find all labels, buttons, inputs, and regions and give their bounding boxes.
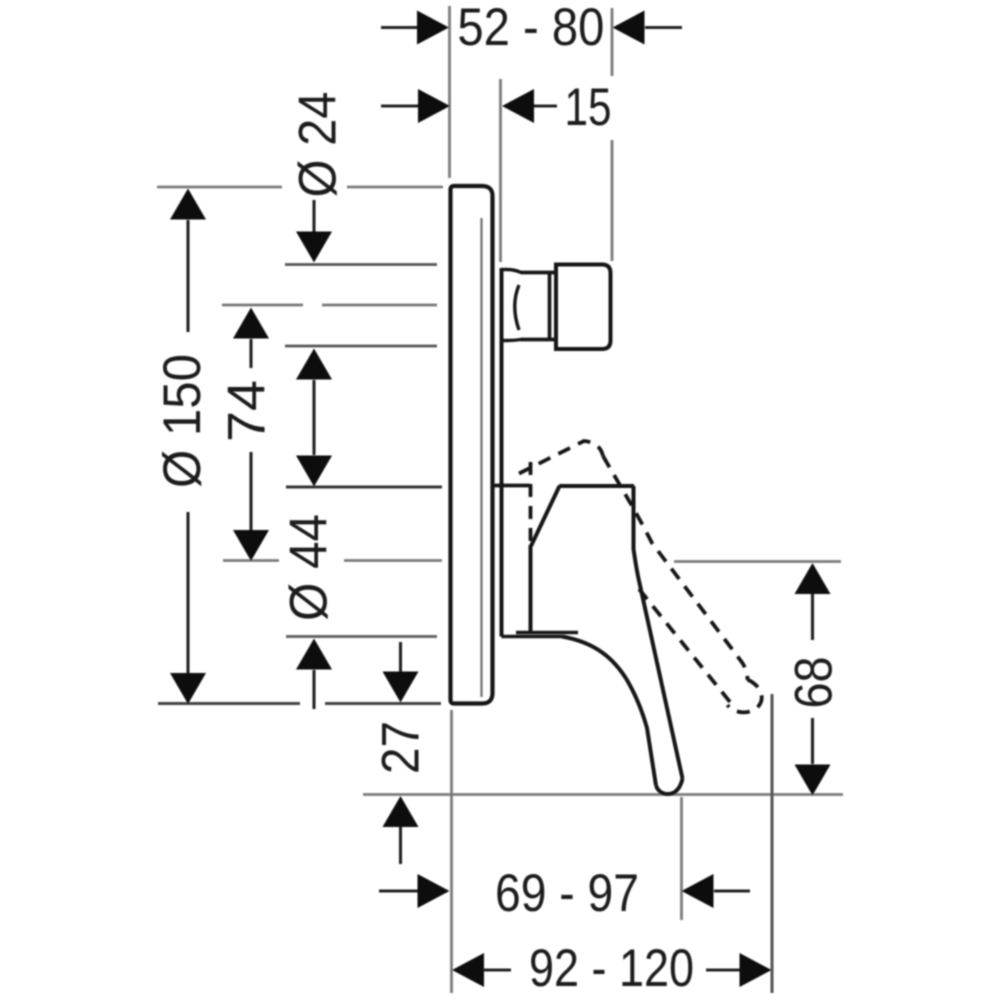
svg-text:Ø 150: Ø 150 <box>153 354 212 488</box>
dimension 68 (x=812.5) <box>795 563 831 594</box>
dashed handle hub left edge <box>529 462 533 545</box>
dimension O44 bottom arrow <box>296 639 332 670</box>
extension line 52-80 right (x=612) <box>611 8 614 261</box>
dimension 52-80 <box>381 26 682 29</box>
svg-text:69 - 97: 69 - 97 <box>495 864 639 923</box>
dimension O44 top arrow (tip at hub top) <box>296 456 332 487</box>
dimension 27 (x=400.5) <box>399 642 402 672</box>
extension line solid tip right (x=681.5) <box>680 797 683 920</box>
dashed lever upper edge <box>603 456 748 680</box>
svg-text:Ø 44: Ø 44 <box>280 514 339 621</box>
dimension 92-120 (y=970) <box>452 953 484 987</box>
lever tip cap <box>656 779 683 795</box>
handle hub left edge <box>529 545 533 633</box>
svg-text:52 - 80: 52 - 80 <box>457 0 604 57</box>
extension line hub center left (y=560.5) <box>223 559 442 562</box>
plate inner edge line <box>480 218 482 697</box>
wall plate (escutcheon side view) <box>451 186 493 704</box>
spout cylinder <box>521 273 557 340</box>
svg-text:92 - 120: 92 - 120 <box>529 939 694 998</box>
extension line hub top (y=487) <box>286 486 442 489</box>
spout end cap <box>556 265 611 350</box>
dimension 74 (x=251) <box>233 308 269 339</box>
extension line dashed tip right (x=772) <box>771 694 774 993</box>
extension line spout bottom (y=346) <box>285 345 437 348</box>
lever right edge <box>634 486 683 779</box>
lever underside <box>562 637 656 786</box>
extension line 52-80 left (x=449.5) <box>448 6 451 178</box>
extension line lever tip bottom (y=794.5) <box>363 793 843 796</box>
handle hub bottom lines <box>502 633 579 637</box>
spout neck <box>502 270 522 341</box>
svg-text:27: 27 <box>372 721 431 774</box>
handle hub top edge <box>559 484 634 488</box>
dashed handle hub top edge <box>519 441 603 474</box>
boss edge behind handle <box>500 268 504 637</box>
dimension O24 (x=314) <box>312 200 315 233</box>
extension line 15 right (x=500.5) <box>499 79 502 262</box>
extension line spout top (y=264.5) <box>285 263 437 266</box>
extension line hub center right (y=561.5) <box>674 560 841 563</box>
svg-text:74: 74 <box>218 380 277 442</box>
handle hub left slant <box>531 486 560 546</box>
extension line plate top (y=187) <box>157 186 443 189</box>
dimension O150 (x=188) <box>170 189 206 220</box>
extension line spout center (y=305) <box>222 304 437 307</box>
handle hub top link <box>494 484 530 488</box>
dashed lever lower edge <box>639 589 730 702</box>
svg-text:68: 68 <box>785 657 844 709</box>
dimension 69-97 (y=891) <box>379 889 750 892</box>
extension line plate bottom (y=703.5) <box>158 702 441 705</box>
extension line plate left down (x=451.5) <box>450 710 453 993</box>
dimension 15 <box>381 104 557 107</box>
dashed lever tip cap <box>728 680 762 713</box>
extension line hub bottom (y=636.5) <box>286 635 437 638</box>
svg-text:15: 15 <box>565 78 612 137</box>
svg-text:Ø 24: Ø 24 <box>289 92 348 198</box>
